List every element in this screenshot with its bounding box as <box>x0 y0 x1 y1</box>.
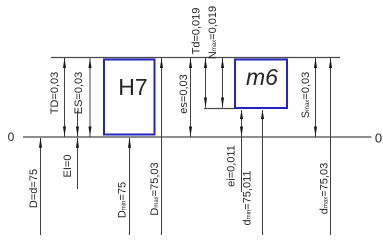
node: upper deviation line (+0,03) <box>51 57 340 59</box>
dimension Smax=0,03 <box>315 58 317 137</box>
dimension es=0,03 <box>190 58 192 137</box>
dimension Dmin=75 <box>129 138 131 235</box>
tolerance box m6 <box>235 60 287 109</box>
svg-text:ES=0,03: ES=0,03 <box>73 72 85 115</box>
dimension dmin=75,011 <box>262 110 264 235</box>
svg-text:es=0,03: es=0,03 <box>178 74 190 113</box>
dimension Dmax=75,03 <box>161 58 163 235</box>
svg-text:D=d=75: D=d=75 <box>28 169 40 208</box>
svg-text:0: 0 <box>8 130 15 144</box>
svg-text:ei=0,011: ei=0,011 <box>226 145 238 187</box>
dimension ei=0,011 <box>241 110 243 192</box>
svg-text:0: 0 <box>375 131 382 146</box>
dimension D=d=75 <box>40 138 42 235</box>
svg-text:EI=0: EI=0 <box>62 155 74 178</box>
dimension TD=0,03 <box>64 58 66 137</box>
svg-text:Dmin=75: Dmin=75 <box>117 182 129 218</box>
tolerance box H7 <box>104 60 155 135</box>
svg-text:TD=0,03: TD=0,03 <box>49 72 61 115</box>
dimension Nmax=0,019 <box>222 58 224 108</box>
svg-text:m6: m6 <box>246 64 278 90</box>
dimension dmax=75,03 <box>330 58 332 235</box>
node: ei level extension line <box>204 108 236 110</box>
dimension ES=0,03 <box>89 58 91 137</box>
dimension Td=0,019 <box>205 58 207 108</box>
node: zero line (nominal size line) <box>23 136 372 138</box>
svg-text:Td=0,019: Td=0,019 <box>191 8 203 55</box>
dimension EI=0 <box>77 111 79 137</box>
svg-text:H7: H7 <box>118 74 147 100</box>
svg-text:Smax=0,03: Smax=0,03 <box>300 72 312 119</box>
